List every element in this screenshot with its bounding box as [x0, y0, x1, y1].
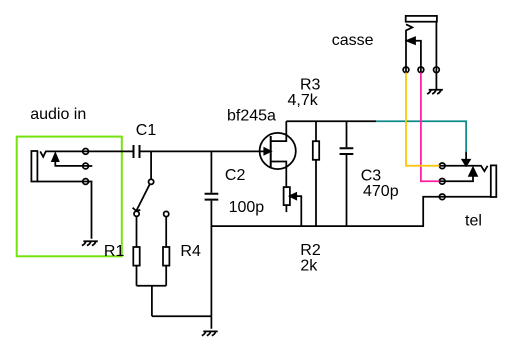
connector J2 tip wire and V contact — [440, 166, 488, 171]
connector J1 ring terminal stub — [88, 165, 92, 167]
magenta wire casse ring to tel ring — [421, 73, 440, 182]
bottom rail wire — [211, 197, 439, 226]
potentiometer R2 wiper arrow — [290, 193, 296, 199]
capacitor C2 — [205, 194, 219, 200]
wire sleeve to ground — [88, 182, 91, 239]
connector J3 tip V contact and wire down — [406, 24, 412, 72]
svg-text:bf245a: bf245a — [227, 107, 276, 124]
svg-text:C2: C2 — [225, 167, 246, 184]
resistor R3 lead bottom — [315, 160, 317, 226]
svg-text:R1: R1 — [104, 243, 125, 260]
capacitor C3 lead top — [346, 121, 348, 147]
transistor Q1 channel bar — [270, 136, 272, 167]
transistor Q1 bf245a JFET circle — [260, 133, 296, 169]
connector J1 audio in : sleeve body — [31, 151, 37, 182]
wire joining R1 R4 bottoms — [137, 285, 167, 287]
top rail wire (teal part) to tel tip — [376, 121, 466, 151]
resistor R4 lead top — [165, 217, 167, 247]
connector J2 ring wire — [440, 176, 474, 181]
wire J1 tip to C1 — [88, 150, 132, 152]
teal wire black end segment — [465, 152, 467, 160]
top rail wire (black part) — [286, 120, 376, 122]
main ground symbol — [202, 331, 218, 335]
resistor R4 body — [163, 247, 169, 266]
svg-text:2k: 2k — [300, 257, 318, 274]
resistor R1 lead top — [136, 216, 138, 247]
ground symbol (casse) — [427, 90, 443, 94]
transistor Q1 source connection — [271, 162, 287, 188]
connector J3 sleeve wire down — [435, 22, 437, 90]
capacitor C1 — [134, 145, 140, 158]
connector J3 casse : sleeve body — [406, 16, 437, 22]
switch lower contact circle — [134, 211, 139, 216]
wire C2 to ground — [210, 201, 212, 329]
resistor R3 body — [313, 141, 319, 160]
switch lever barbs — [133, 208, 141, 211]
arrow onto tel tip line — [462, 160, 469, 166]
resistor R3 lead top — [315, 121, 317, 141]
svg-text:470p: 470p — [363, 183, 399, 200]
wire C1 to gate of Q1 — [141, 150, 265, 152]
svg-text:4,7k: 4,7k — [288, 92, 319, 109]
connector J1 ring contact arrow — [52, 153, 58, 161]
yellow wire casse tip to tel tip — [406, 73, 440, 166]
connector J3 ring stem wire — [415, 41, 421, 73]
connector J1 tip terminal circle — [83, 149, 89, 155]
connector J2 tel : sleeve terminal circle — [439, 194, 445, 200]
connector J3 sleeve terminal circle — [434, 67, 440, 73]
ground symbol (audio in) — [82, 241, 98, 245]
capacitor C3 lead bottom — [346, 155, 348, 226]
connector J2 tip terminal circle — [439, 163, 445, 169]
connector J1 ring contact stem wire — [55, 161, 88, 166]
connector J2 ring terminal circle — [439, 178, 445, 184]
connector J1 sleeve terminal circle — [83, 179, 89, 185]
wire down from R1/R4 join — [151, 286, 153, 317]
connector J2 ring contact arrow — [469, 168, 477, 176]
svg-text:casse: casse — [332, 32, 374, 49]
connector J3 ring terminal circle — [418, 67, 424, 73]
wire to main ground — [152, 315, 212, 317]
svg-text:C1: C1 — [136, 122, 157, 139]
wire gate node down to C2 — [210, 151, 212, 192]
transistor Q1 drain connection — [271, 121, 287, 141]
connector J3 tip terminal circle — [403, 67, 409, 73]
potentiometer R2 wiper wire — [296, 196, 301, 226]
switch stem from wire — [150, 151, 152, 179]
connector J2 sleeve body — [491, 165, 497, 197]
svg-text:tel: tel — [465, 213, 482, 230]
capacitor C3 — [340, 148, 354, 154]
svg-text:audio in: audio in — [30, 106, 86, 123]
svg-text:C3: C3 — [361, 168, 382, 185]
green highlight box around audio input — [17, 137, 122, 257]
connector J2 sleeve wire — [440, 196, 491, 198]
switch lever — [136, 184, 149, 211]
transistor Q1 gate arrow — [264, 148, 270, 154]
potentiometer R2 body — [284, 187, 290, 205]
resistor R4 lead bottom — [165, 266, 167, 286]
resistor R1 lead bottom — [136, 266, 138, 286]
connector J3 ring contact arrow — [407, 37, 415, 44]
svg-text:100p: 100p — [229, 199, 265, 216]
potentiometer R2 lower stub — [285, 205, 287, 212]
switch upper contact circle — [149, 179, 154, 184]
svg-text:R4: R4 — [180, 243, 201, 260]
connector J1 tip contact (V) — [40, 151, 88, 156]
connector J1 sleeve wire — [37, 181, 88, 183]
connector J1 ring terminal circle — [83, 163, 89, 169]
resistor R1 body — [133, 247, 139, 266]
R4 upper contact circle — [164, 211, 169, 216]
